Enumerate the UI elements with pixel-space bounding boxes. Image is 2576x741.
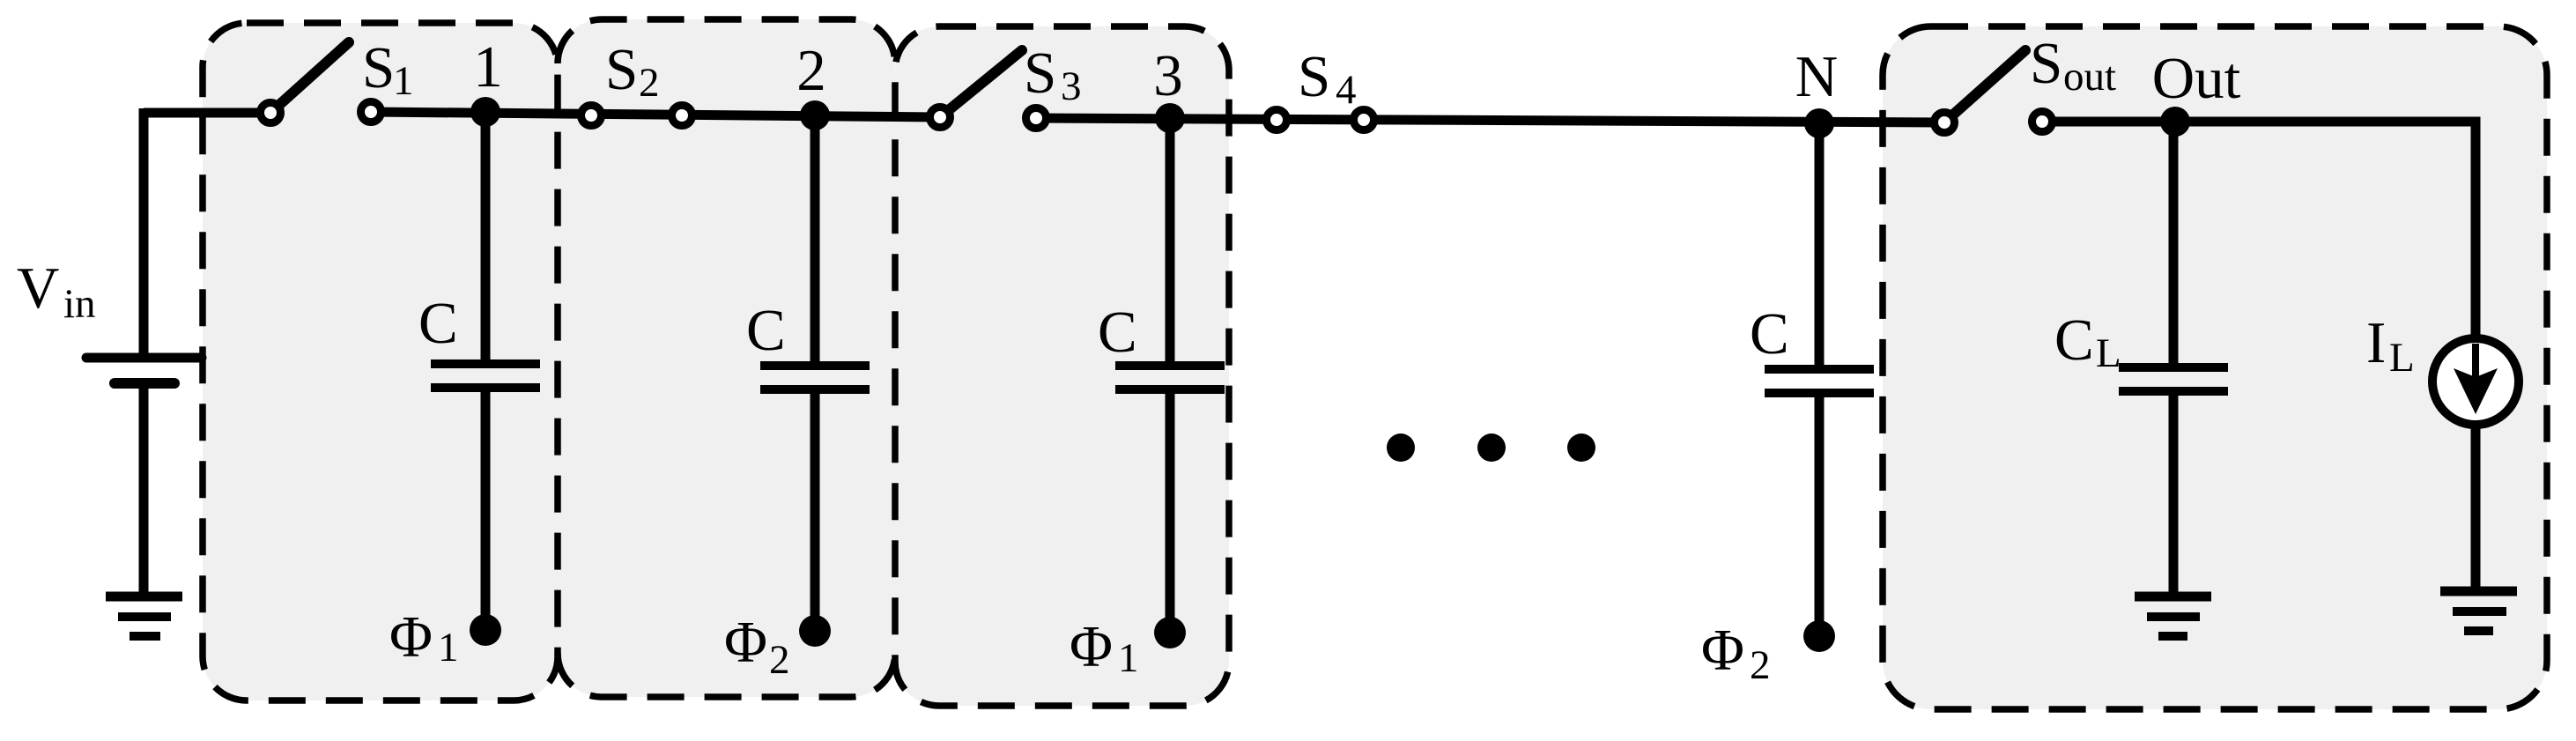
switch Sout lever (open) <box>1944 50 2025 122</box>
svg-text:L: L <box>2096 330 2121 376</box>
svg-text:4: 4 <box>1336 67 1357 113</box>
svg-text:Φ: Φ <box>389 604 433 670</box>
node N junction dot <box>1804 108 1834 138</box>
output stage dashed border <box>1883 26 2547 709</box>
svg-text:2: 2 <box>796 38 826 103</box>
wire: Sout contact through Out node to IL branch corner <box>2042 122 2476 335</box>
capacitor C (stage 1) <box>431 364 540 388</box>
svg-text:S: S <box>1298 44 1330 109</box>
capacitor C (stage 3) <box>1115 366 1225 389</box>
svg-text:1: 1 <box>438 625 459 671</box>
switch S3 pivot contact <box>930 107 951 128</box>
wire: battery to ground <box>139 385 149 597</box>
current source IL arrowhead <box>2454 368 2498 414</box>
switch S3 lever (open) <box>940 50 1022 117</box>
wire: capacitor to phi1 terminal <box>481 388 491 630</box>
wire: node 3 down to capacitor <box>1166 118 1175 366</box>
svg-text:3: 3 <box>1061 63 1082 109</box>
svg-text:Φ: Φ <box>1701 618 1744 683</box>
svg-text:C: C <box>2054 308 2094 373</box>
node phi1 terminal dot (stage 3) <box>1154 617 1186 648</box>
stage 1 dashed border <box>203 23 558 700</box>
svg-text:Out: Out <box>2152 46 2241 111</box>
svg-text:1: 1 <box>393 58 414 104</box>
svg-text:C: C <box>746 298 786 363</box>
capacitor C (stage N) <box>1765 369 1874 393</box>
battery V1 bottom plate <box>115 378 174 389</box>
svg-text:in: in <box>63 281 96 327</box>
output stage box fill <box>1883 26 2547 709</box>
ellipsis dot 2 <box>1477 433 1506 462</box>
ground (Vin) <box>106 597 182 636</box>
switch S4 contact (left) <box>1267 110 1287 130</box>
wire: S1 contact through node 1, S2, node 2 to S3 pivot <box>371 112 940 117</box>
current source IL arrow shaft <box>2472 344 2479 377</box>
current source IL circle <box>2432 338 2519 425</box>
node 2 junction dot <box>800 100 830 130</box>
stage 2 box fill <box>558 19 895 697</box>
wire: S3 contact through node 3, S4, node N to Sout pivot <box>1036 118 1944 122</box>
ellipsis dot 1 <box>1387 433 1415 462</box>
stage 3 dashed border <box>895 26 1229 706</box>
switch Sout fixed contact <box>2032 112 2053 132</box>
battery V1 top plate <box>86 353 202 363</box>
wire: IL to ground <box>2471 425 2481 591</box>
svg-text:1: 1 <box>1118 635 1139 681</box>
svg-text:2: 2 <box>1750 642 1771 688</box>
wire: Vin feed to S1 pivot <box>144 108 270 118</box>
capacitor CL <box>2119 367 2228 391</box>
node Out junction dot <box>2160 107 2190 137</box>
svg-text:1: 1 <box>473 34 503 100</box>
svg-text:S: S <box>2030 31 2062 96</box>
stage 3 box fill <box>895 26 1229 706</box>
node phi1 terminal dot (stage 1) <box>470 614 501 646</box>
wire: CL to ground <box>2169 391 2179 597</box>
stage 1 box fill <box>203 23 558 700</box>
svg-text:S: S <box>605 37 638 102</box>
switch S1 fixed contact <box>361 102 381 122</box>
svg-text:L: L <box>2389 335 2415 381</box>
ground (IL) <box>2440 591 2517 631</box>
wire: node 2 down to capacitor <box>811 116 820 366</box>
wire: node N down to capacitor <box>1815 123 1825 369</box>
wire: node 1 down to capacitor <box>481 113 491 364</box>
svg-text:I: I <box>2366 310 2386 375</box>
node 1 junction dot <box>470 97 500 127</box>
switch S1 lever (open) <box>270 42 349 113</box>
switch S2 contact (left) <box>581 106 602 126</box>
svg-text:S: S <box>1024 41 1056 106</box>
node 3 junction dot <box>1155 103 1185 133</box>
svg-text:out: out <box>2063 54 2116 100</box>
wire: capacitor to phi1 terminal <box>1166 389 1175 633</box>
svg-text:C: C <box>1750 301 1789 367</box>
wire: Out node down to CL <box>2169 122 2179 367</box>
svg-text:C: C <box>1098 300 1137 365</box>
wire: Vin vertical <box>139 108 149 358</box>
svg-text:N: N <box>1795 44 1838 109</box>
svg-text:S: S <box>362 35 395 100</box>
switch Sout pivot contact <box>1935 113 1955 133</box>
switch S1 pivot contact <box>261 103 281 123</box>
capacitor C (stage 2) <box>760 366 870 389</box>
svg-text:Φ: Φ <box>1070 614 1113 679</box>
svg-text:C: C <box>418 291 458 356</box>
svg-text:Φ: Φ <box>724 610 767 675</box>
svg-text:2: 2 <box>639 60 660 106</box>
svg-text:3: 3 <box>1153 43 1183 108</box>
node phi2 terminal dot (stage 2) <box>799 615 831 647</box>
wire: capacitor to phi2 terminal <box>1815 393 1825 636</box>
ground (CL) <box>2135 597 2211 636</box>
node phi2 terminal dot (stage N) <box>1803 620 1835 652</box>
switch S3 fixed contact <box>1026 108 1047 129</box>
switch S2 contact (right) <box>672 106 692 126</box>
svg-text:V: V <box>17 256 59 321</box>
svg-text:2: 2 <box>769 637 790 683</box>
stage 2 dashed border (top and bottom edges; vertical edges shared with stages 1 and 3) <box>558 19 895 63</box>
ellipsis dot 3 <box>1567 433 1595 462</box>
wire: capacitor to phi2 terminal <box>811 389 820 631</box>
switch S4 contact (right) <box>1354 110 1374 130</box>
